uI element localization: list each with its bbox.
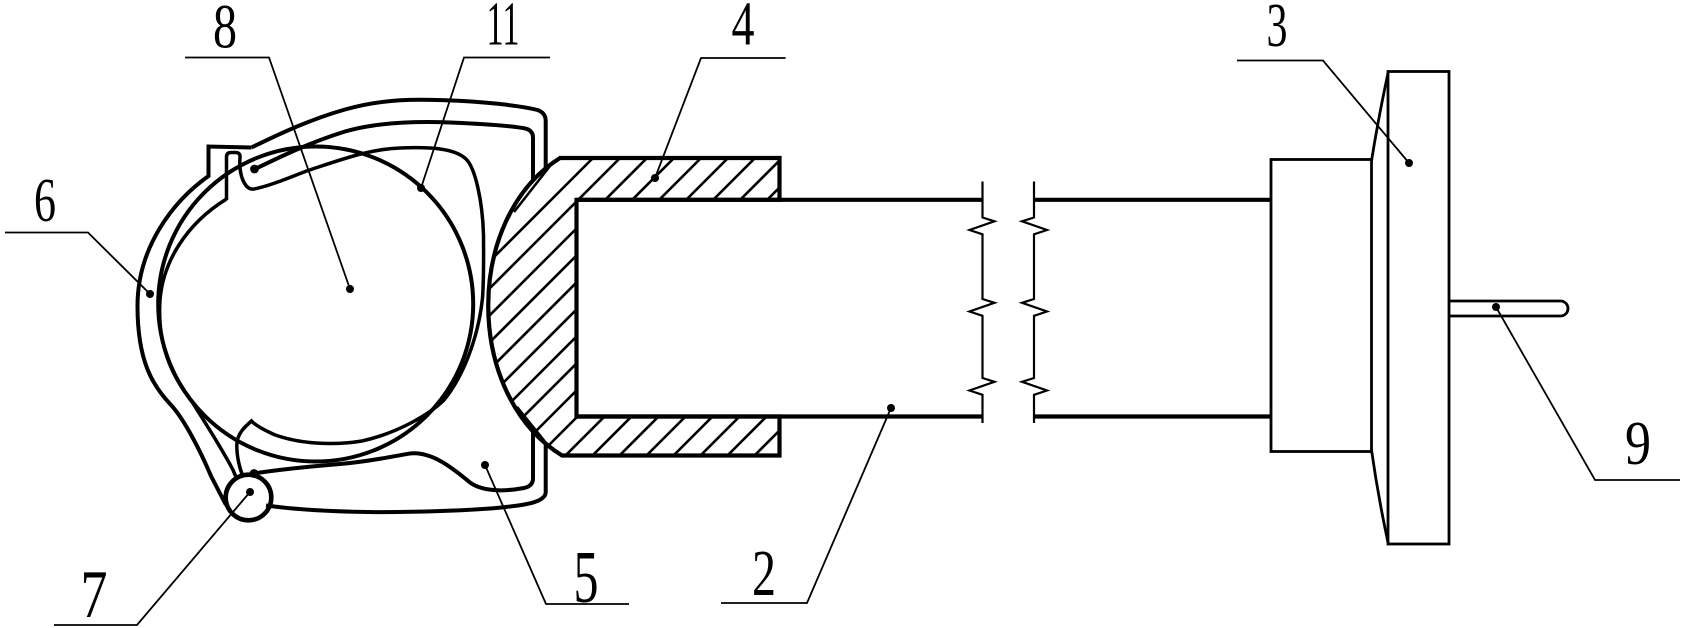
svg-text:8: 8 <box>213 0 237 62</box>
svg-text:5: 5 <box>574 537 599 619</box>
svg-text:11: 11 <box>487 0 520 59</box>
svg-text:7: 7 <box>81 556 108 628</box>
svg-text:3: 3 <box>1267 0 1288 60</box>
svg-text:2: 2 <box>752 537 776 610</box>
svg-text:9: 9 <box>1625 410 1651 478</box>
svg-text:4: 4 <box>732 0 755 59</box>
svg-text:6: 6 <box>34 167 56 235</box>
